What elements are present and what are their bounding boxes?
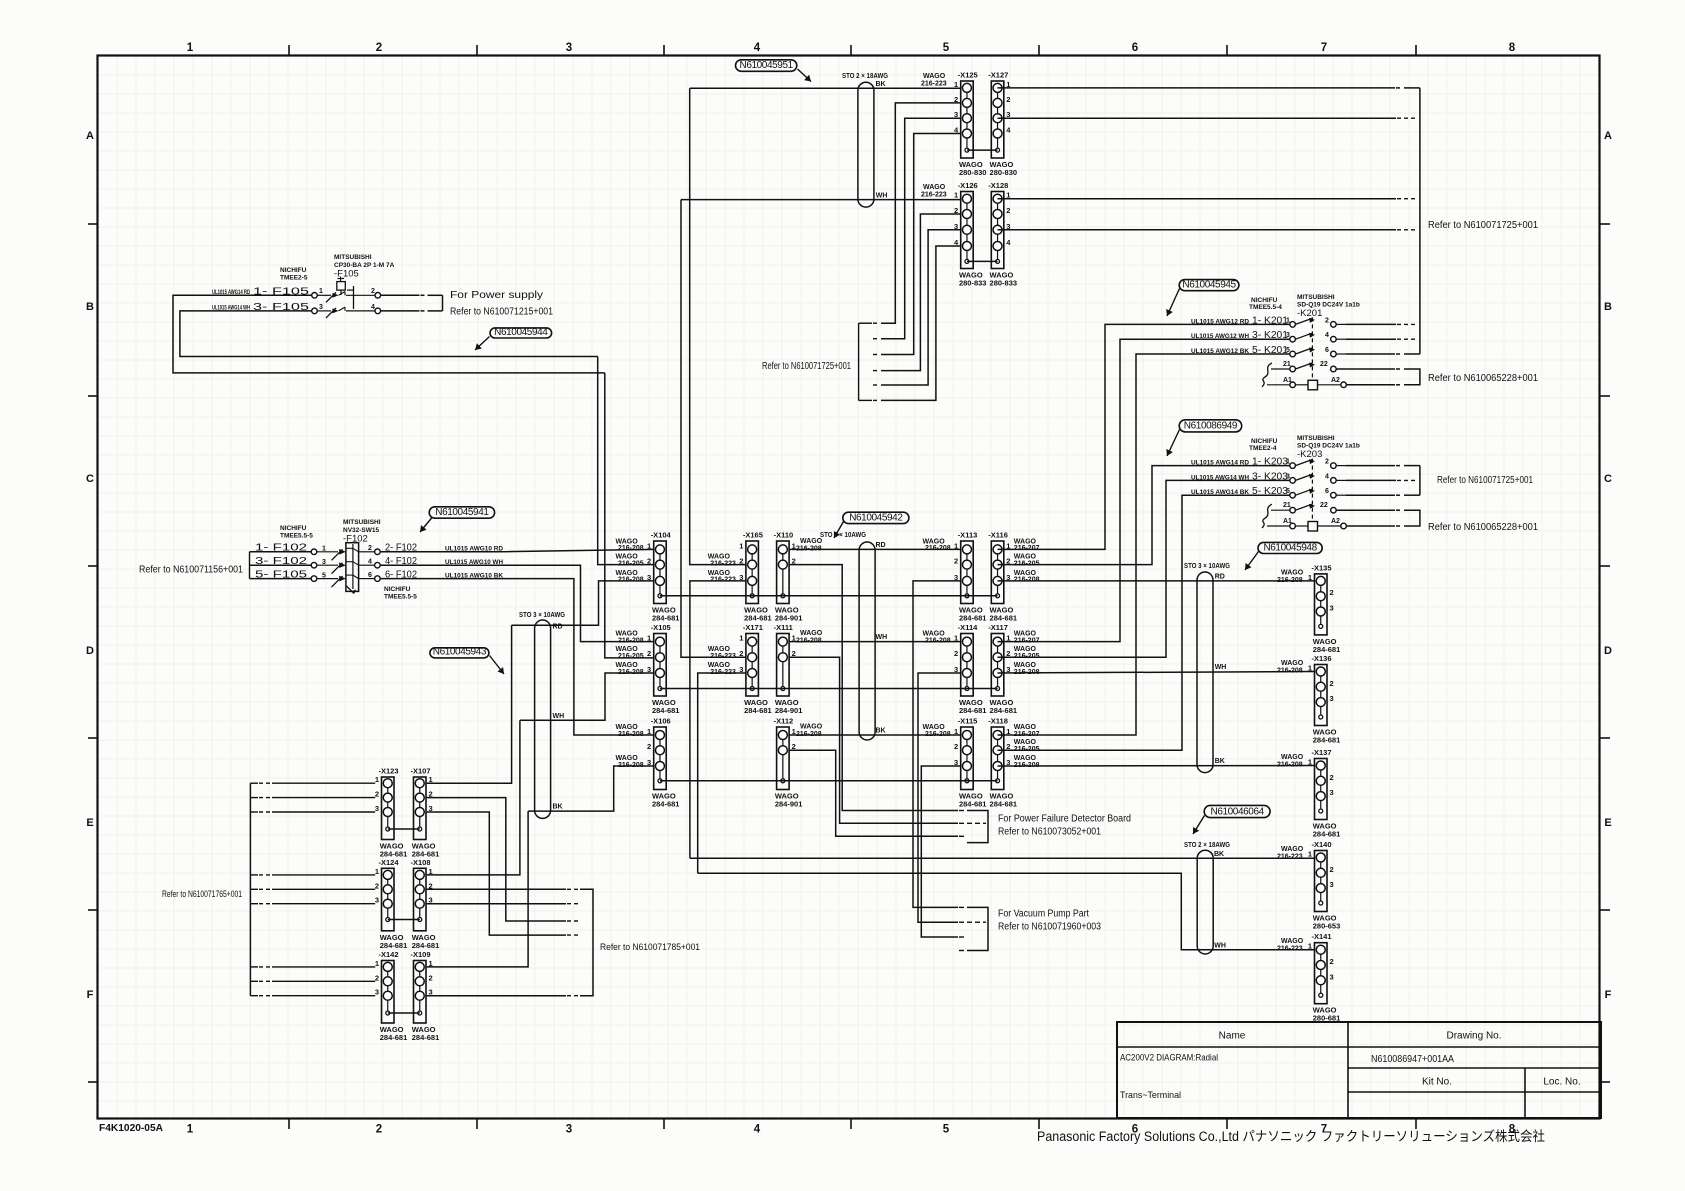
svg-text:1: 1 <box>187 1124 194 1136</box>
wire bracket to X142 pin <box>250 995 258 997</box>
svg-text:RD: RD <box>1215 574 1225 581</box>
svg-text:A1: A1 <box>1283 377 1292 384</box>
svg-text:1: 1 <box>429 867 433 876</box>
cable STO 3x10AWG left <box>519 612 565 818</box>
wire joining small terminals X123-X107 <box>388 828 420 830</box>
wire F102-6 BK to X106 pin1 <box>380 579 654 735</box>
wire F105-3 loop left <box>180 311 598 357</box>
wire X128 pin1 to right bracket <box>998 198 1397 200</box>
svg-text:284-681: 284-681 <box>990 706 1018 715</box>
wire X127 pin1 to right bracket <box>998 87 1396 89</box>
svg-text:284-681: 284-681 <box>744 706 772 715</box>
svg-text:BK: BK <box>876 728 886 735</box>
wire X126 pin2 to left bracket <box>881 214 961 371</box>
callout N610045945 <box>1166 280 1239 317</box>
breaker F102 labels <box>280 519 417 601</box>
svg-text:-X105: -X105 <box>651 623 671 632</box>
svg-text:RD: RD <box>876 542 886 549</box>
svg-text:284-681: 284-681 <box>412 1033 440 1042</box>
svg-text:2: 2 <box>647 557 651 566</box>
svg-text:STO 2 × 18AWG: STO 2 × 18AWG <box>1184 842 1230 849</box>
svg-text:1: 1 <box>1308 850 1312 859</box>
svg-text:E: E <box>86 817 93 829</box>
svg-text:5: 5 <box>943 1124 950 1136</box>
wire label UL1015 AWG14 WH 3- K203 <box>1191 471 1329 482</box>
wire X112 pin2 down to Power Failure bracket <box>789 750 958 836</box>
svg-text:STO 3 × 10AWG: STO 3 × 10AWG <box>519 612 565 619</box>
svg-text:2: 2 <box>376 42 382 54</box>
svg-text:-X171: -X171 <box>743 623 763 632</box>
wire vertical X171 pin3 feed <box>698 673 746 873</box>
svg-text:8: 8 <box>1509 42 1516 54</box>
svg-text:B: B <box>86 301 94 313</box>
svg-text:3: 3 <box>375 896 379 905</box>
svg-text:284-681: 284-681 <box>959 800 987 809</box>
svg-text:N610045951: N610045951 <box>740 60 794 71</box>
wire X110 pin2 down to Power Failure bracket <box>789 565 958 811</box>
svg-text:216-223: 216-223 <box>921 81 947 88</box>
svg-text:1: 1 <box>429 775 433 784</box>
connector X126 <box>954 181 986 288</box>
svg-text:284-681: 284-681 <box>1313 830 1341 839</box>
svg-text:TMEE5.5-4: TMEE5.5-4 <box>1249 304 1282 311</box>
wire F105 WH vertical to X104 pin2 <box>598 357 654 565</box>
cable STO 3x10AWG right <box>1184 563 1230 773</box>
svg-text:RD: RD <box>553 624 563 631</box>
wire K203-22 to bracket <box>1336 510 1403 526</box>
svg-text:2: 2 <box>647 649 651 658</box>
svg-text:1: 1 <box>954 191 958 200</box>
connector X127 <box>988 71 1017 178</box>
svg-text:216-205: 216-205 <box>618 653 644 660</box>
svg-text:-X123: -X123 <box>379 767 399 776</box>
wire X116 pin3 to X135 pin1 RD <box>998 574 1316 581</box>
svg-text:Refer to N610071156+001: Refer to N610071156+001 <box>139 565 243 576</box>
svg-text:WH: WH <box>1214 942 1226 949</box>
svg-text:-X111: -X111 <box>774 623 793 632</box>
svg-text:NICHIFU: NICHIFU <box>1251 297 1278 304</box>
svg-text:3: 3 <box>1330 788 1334 797</box>
svg-text:WAGO: WAGO <box>1281 660 1304 667</box>
bracket Refer to N610071156+001 <box>250 552 312 579</box>
svg-text:NICHIFU: NICHIFU <box>280 525 307 532</box>
svg-text:WAGO: WAGO <box>1281 754 1304 761</box>
frame row ticks left <box>88 224 98 1082</box>
svg-text:1: 1 <box>1308 664 1312 673</box>
connector X105 <box>616 623 680 715</box>
callout N610046064 <box>1193 805 1270 834</box>
wire joining small terminals row C <box>660 780 998 782</box>
callout N610045943 <box>430 647 504 674</box>
cable STO 2x18AWG top <box>842 73 888 207</box>
svg-text:For Power supply: For Power supply <box>450 290 543 301</box>
relay K201 labels <box>1249 294 1360 319</box>
svg-text:-F105: -F105 <box>334 269 359 280</box>
column numbers top <box>187 42 1516 54</box>
svg-text:NICHIFU: NICHIFU <box>1251 438 1278 445</box>
connector X118 <box>988 717 1039 809</box>
wire K201-22 to bracket <box>1336 369 1403 385</box>
wire X114 pin3 down to Vacuum bracket <box>918 673 961 922</box>
continuation bracket Refer to N610071785+001 <box>567 889 593 995</box>
drawing frame border <box>98 56 1600 1119</box>
svg-text:-X128: -X128 <box>988 181 1008 190</box>
svg-text:MITSUBISHI: MITSUBISHI <box>1297 294 1335 301</box>
svg-text:284-681: 284-681 <box>959 706 987 715</box>
continuation bracket Refer to N610065228+001 K201 <box>1404 369 1420 385</box>
svg-text:-X126: -X126 <box>958 181 978 190</box>
wire K201-6 to right bracket <box>1346 353 1395 355</box>
svg-text:1: 1 <box>739 541 743 550</box>
svg-text:-K203: -K203 <box>1297 449 1322 460</box>
svg-text:3: 3 <box>647 573 651 582</box>
label WAGO 216-208 left of X137 <box>1277 754 1304 769</box>
svg-text:1: 1 <box>375 775 379 784</box>
callout N610045941 <box>420 507 495 532</box>
wire X115 pin3 down to Vacuum bracket <box>921 766 960 937</box>
wire X125 pin4 to left bracket <box>881 134 961 355</box>
svg-text:216-208: 216-208 <box>1277 668 1303 675</box>
wire joining small terminals X124-X108 <box>388 919 420 921</box>
svg-text:WAGO: WAGO <box>800 630 823 637</box>
svg-text:280-653: 280-653 <box>1313 922 1341 931</box>
connector X125 <box>954 71 986 178</box>
svg-text:5: 5 <box>943 42 950 54</box>
svg-text:2: 2 <box>429 973 433 982</box>
svg-text:4: 4 <box>1325 332 1329 339</box>
svg-text:2: 2 <box>1006 95 1010 104</box>
wire bracket to X124 pin <box>250 888 258 890</box>
wire X111 pin1 to X114 pin1 WH <box>789 634 961 642</box>
svg-text:-X109: -X109 <box>411 950 431 959</box>
svg-text:TMEE5.5-5: TMEE5.5-5 <box>384 594 417 601</box>
svg-text:284-901: 284-901 <box>775 614 803 623</box>
frame row ticks right <box>1600 224 1610 1082</box>
wire label UL1015 AWG12 BK 5- K201 <box>1191 345 1329 356</box>
connector X140 <box>1308 840 1340 931</box>
callout N610045951 <box>736 60 812 82</box>
svg-text:6: 6 <box>1132 42 1138 54</box>
svg-text:2: 2 <box>376 1124 382 1136</box>
svg-text:-X106: -X106 <box>651 717 671 726</box>
connector X110 <box>774 531 803 623</box>
wire BK vertical to X165 pin2 <box>690 88 746 564</box>
svg-text:Drawing No.: Drawing No. <box>1446 1031 1501 1042</box>
frame column ticks bottom <box>289 1118 1416 1129</box>
svg-text:284-681: 284-681 <box>380 941 408 950</box>
continuation bracket Refer to N610071725+001 middle <box>859 323 880 400</box>
svg-text:21: 21 <box>1283 502 1291 509</box>
wire label UL1015 AWG14 RD 1- K203 <box>1191 457 1329 468</box>
wire F102-4 WH to X105 pin1 <box>380 565 654 641</box>
connector X142 <box>375 950 407 1042</box>
svg-text:21: 21 <box>1283 361 1291 368</box>
svg-text:216-208: 216-208 <box>618 545 644 552</box>
svg-text:4: 4 <box>368 559 372 566</box>
svg-text:2: 2 <box>954 742 958 751</box>
wire label UL1015 AWG12 WH 3- K201 <box>1191 330 1329 341</box>
wire K201-1 to X116 pin1 <box>998 324 1290 549</box>
svg-text:-X137: -X137 <box>1312 748 1332 757</box>
connector X124 <box>375 858 407 950</box>
svg-text:Refer to N610073052+001: Refer to N610073052+001 <box>998 827 1101 838</box>
svg-text:3: 3 <box>319 304 323 311</box>
svg-text:3: 3 <box>647 758 651 767</box>
svg-text:D: D <box>86 645 94 657</box>
label WAGO 216-208 right of X111 <box>796 630 823 645</box>
svg-text:BK: BK <box>1215 758 1225 765</box>
svg-text:STO 3 × 10AWG: STO 3 × 10AWG <box>1184 563 1230 570</box>
svg-text:STO 2 × 18AWG: STO 2 × 18AWG <box>842 73 888 80</box>
svg-text:For Power Failure Detector Boa: For Power Failure Detector Board <box>998 814 1131 825</box>
wire WH long to X141 pin1 <box>698 873 1315 949</box>
relay K203 contacts <box>1262 459 1346 531</box>
connector X111 <box>774 623 803 715</box>
wire WH through left cable to X105 pin3 <box>520 673 654 720</box>
svg-text:3: 3 <box>566 42 572 54</box>
svg-text:N610045942: N610045942 <box>849 512 903 523</box>
svg-text:216-208: 216-208 <box>618 669 644 676</box>
wire bracket to X142 pin <box>250 966 258 968</box>
connector X104 <box>616 531 680 623</box>
svg-text:A2: A2 <box>1331 377 1340 384</box>
continuation bracket For Power supply <box>421 295 443 311</box>
wire F105 RD vertical to X105 pin2 <box>605 373 654 658</box>
svg-text:Refer to N610071725+001: Refer to N610071725+001 <box>762 361 851 372</box>
wire F105 terminal 4 stub <box>381 310 420 312</box>
svg-text:C: C <box>86 473 94 485</box>
svg-text:1: 1 <box>739 634 743 643</box>
svg-text:3: 3 <box>375 988 379 997</box>
svg-text:Refer to N610071725+001: Refer to N610071725+001 <box>1428 220 1538 231</box>
svg-text:284-681: 284-681 <box>652 706 680 715</box>
frame column ticks top <box>289 45 1416 56</box>
label WAGO 216-208 left of X136 <box>1277 660 1304 675</box>
connector X123 <box>375 767 407 859</box>
wire label UL1015 AWG14 RD 1- F105 <box>212 286 323 297</box>
connector X137 <box>1308 748 1340 839</box>
callout N610045948 <box>1245 542 1322 570</box>
wire bracket to X123 pin <box>250 797 258 799</box>
wire RD cable to X107 pin1 <box>427 625 512 783</box>
svg-text:216-223: 216-223 <box>1277 854 1303 861</box>
wire K203-1 to X116 pin2 <box>998 466 1290 565</box>
svg-text:3: 3 <box>1330 694 1334 703</box>
svg-text:284-681: 284-681 <box>380 1033 408 1042</box>
column numbers bottom <box>187 1124 1516 1136</box>
svg-text:Refer to N610065228+001: Refer to N610065228+001 <box>1428 373 1538 384</box>
svg-text:-X124: -X124 <box>379 858 400 867</box>
wire X125 pin3 to left bracket <box>881 118 961 339</box>
svg-text:284-681: 284-681 <box>990 614 1018 623</box>
svg-text:280-681: 280-681 <box>1313 1014 1341 1023</box>
svg-text:1: 1 <box>429 959 433 968</box>
svg-text:2: 2 <box>1330 588 1334 597</box>
svg-text:216-208: 216-208 <box>618 637 644 644</box>
svg-text:-X115: -X115 <box>958 717 978 726</box>
svg-text:F: F <box>1605 989 1612 1001</box>
svg-text:BK: BK <box>1214 851 1224 858</box>
svg-text:N610086949: N610086949 <box>1184 421 1238 432</box>
svg-text:1: 1 <box>375 959 379 968</box>
connector X113 <box>923 531 987 623</box>
svg-text:WH: WH <box>553 713 565 720</box>
svg-text:284-901: 284-901 <box>775 800 803 809</box>
svg-text:Loc. No.: Loc. No. <box>1543 1077 1580 1088</box>
svg-text:2: 2 <box>1330 865 1334 874</box>
wire BK long to X140 pin1 <box>690 851 1315 858</box>
svg-text:N610086947+001AA: N610086947+001AA <box>1371 1053 1454 1065</box>
wire joining small terminals X125-X127 <box>967 149 998 151</box>
wire WH vertical to X171 pin2 <box>681 200 746 658</box>
relay K201 contacts <box>1262 317 1346 389</box>
wire K203-5 to X118 pin2 <box>998 495 1290 750</box>
svg-text:1: 1 <box>375 867 379 876</box>
label WAGO 216-208 right of X110 <box>796 538 823 553</box>
svg-text:1: 1 <box>319 288 323 295</box>
svg-text:-X118: -X118 <box>988 717 1008 726</box>
continuation bracket right K203 <box>1419 466 1421 496</box>
svg-text:E: E <box>1604 817 1611 829</box>
svg-text:4: 4 <box>371 304 375 311</box>
svg-text:Refer to N610065228+001: Refer to N610065228+001 <box>1428 522 1538 533</box>
wire label UL1015 AWG14 WH 3- F105 <box>212 302 323 313</box>
svg-text:280-833: 280-833 <box>959 279 987 288</box>
svg-text:216-205: 216-205 <box>618 560 644 567</box>
wire X107 pin2 to bracket N610071785 <box>427 798 566 921</box>
svg-text:BK: BK <box>876 81 886 88</box>
wire vertical X165 pin3 feed <box>690 581 746 858</box>
svg-text:284-681: 284-681 <box>1313 736 1341 745</box>
wire K201-2 to right bracket <box>1346 323 1396 325</box>
svg-text:-X165: -X165 <box>743 531 763 540</box>
connector X171 <box>708 623 772 715</box>
svg-text:280-833: 280-833 <box>990 279 1018 288</box>
breaker F102 <box>311 543 380 594</box>
svg-text:Trans~Terminal: Trans~Terminal <box>1120 1090 1181 1101</box>
wire label UL1015 AWG12 RD 1- K201 <box>1191 315 1329 326</box>
wire X108 pin2 to bracket N610071785 <box>427 888 566 890</box>
svg-text:22: 22 <box>1320 361 1328 368</box>
svg-text:2: 2 <box>1330 773 1334 782</box>
svg-text:NICHIFU: NICHIFU <box>280 267 307 274</box>
svg-text:NICHIFU: NICHIFU <box>384 586 411 593</box>
svg-text:3: 3 <box>566 1124 572 1136</box>
svg-text:2: 2 <box>1325 317 1329 324</box>
svg-text:1: 1 <box>1308 573 1312 582</box>
relay K203 labels <box>1249 435 1360 460</box>
connector X116 <box>988 531 1039 623</box>
svg-text:1: 1 <box>647 634 651 643</box>
svg-text:-X140: -X140 <box>1312 840 1332 849</box>
svg-text:-K201: -K201 <box>1297 308 1322 319</box>
wire WH top cable to X126 pin1 <box>681 192 961 199</box>
svg-text:WAGO: WAGO <box>1281 569 1304 576</box>
svg-text:284-681: 284-681 <box>652 800 680 809</box>
svg-text:280-830: 280-830 <box>990 168 1018 177</box>
svg-text:-X136: -X136 <box>1312 654 1332 663</box>
svg-text:Refer to N610071960+003: Refer to N610071960+003 <box>998 922 1101 933</box>
svg-text:A: A <box>86 130 94 142</box>
svg-text:1: 1 <box>187 42 194 54</box>
wire joining small terminals row A <box>660 595 998 597</box>
wire X112 pin1 to X115 pin1 BK <box>789 728 961 736</box>
svg-text:Refer to N610071785+001: Refer to N610071785+001 <box>600 942 700 953</box>
svg-text:STO 3 × 10AWG: STO 3 × 10AWG <box>820 532 866 539</box>
wire X108 pin3 to bracket N610071785 <box>427 903 566 905</box>
svg-text:MITSUBISHI: MITSUBISHI <box>1297 435 1335 442</box>
wire K203-2 to right bracket <box>1346 465 1395 467</box>
svg-text:3: 3 <box>1330 972 1334 981</box>
svg-text:2: 2 <box>1330 679 1334 688</box>
connector X117 <box>988 623 1039 715</box>
svg-text:280-830: 280-830 <box>959 168 987 177</box>
wire F102-2 RD to X104 pin1 <box>380 549 654 551</box>
connector X109 <box>411 950 440 1042</box>
svg-text:284-681: 284-681 <box>412 941 440 950</box>
svg-text:Refer to N610071215+001: Refer to N610071215+001 <box>450 307 553 318</box>
svg-text:216-208: 216-208 <box>1277 762 1303 769</box>
svg-text:-X125: -X125 <box>958 71 978 80</box>
wire X128 pin3 to right bracket <box>998 229 1397 231</box>
connector X106 <box>616 717 680 809</box>
wire labels F102 left <box>255 543 326 581</box>
svg-text:6: 6 <box>368 572 372 579</box>
svg-text:1: 1 <box>1308 758 1312 767</box>
wire X127 pin3 to right bracket <box>998 117 1397 119</box>
svg-text:D: D <box>1604 645 1612 657</box>
continuation bracket Refer to N610065228+001 K203 <box>1404 510 1420 526</box>
breaker F105 labels <box>280 254 395 282</box>
tall continuation bracket right Refer to N610071725+001 <box>1419 88 1421 354</box>
svg-text:N610045943: N610045943 <box>433 647 487 658</box>
svg-text:3: 3 <box>1330 604 1334 613</box>
wire label UL1015 AWG14 BK 5- K203 <box>1191 486 1329 497</box>
wire X126 pin4 to left bracket <box>881 246 961 400</box>
wire X118 pin3 to X137 pin1 BK <box>998 758 1316 766</box>
svg-text:1: 1 <box>647 541 651 550</box>
svg-text:Name: Name <box>1219 1031 1246 1042</box>
continuation bracket Power Failure Detector <box>959 811 988 843</box>
svg-text:WAGO: WAGO <box>800 538 823 545</box>
wire BK cable to X109 pin1 <box>427 811 528 967</box>
svg-text:-X107: -X107 <box>411 767 431 776</box>
svg-text:MITSUBISHI: MITSUBISHI <box>334 254 372 261</box>
svg-text:-X104: -X104 <box>651 531 672 540</box>
svg-text:F4K1020-05A: F4K1020-05A <box>99 1123 163 1134</box>
svg-text:216-208: 216-208 <box>618 762 644 769</box>
svg-text:3: 3 <box>1330 880 1334 889</box>
svg-text:Refer to N610071725+001: Refer to N610071725+001 <box>1437 475 1533 486</box>
svg-text:N610045945: N610045945 <box>1182 280 1236 291</box>
svg-text:WAGO: WAGO <box>923 184 946 191</box>
svg-text:-X117: -X117 <box>988 623 1008 632</box>
svg-text:1: 1 <box>954 80 958 89</box>
svg-text:A2: A2 <box>1331 518 1340 525</box>
wire K203-6 to right bracket <box>1346 494 1395 496</box>
wire F105-1 loop left <box>173 295 605 373</box>
svg-text:3: 3 <box>647 665 651 674</box>
wire X109 pin3 to bracket N610071785 <box>427 995 566 997</box>
wire joining small terminals row B <box>660 688 998 690</box>
connector X112 <box>774 717 803 809</box>
wire joining small terminals X142-X109 <box>388 1012 420 1014</box>
svg-text:2: 2 <box>375 973 379 982</box>
label WAGO 216-208 left of X135 <box>1277 569 1304 584</box>
connector X135 <box>1308 563 1340 654</box>
svg-text:2: 2 <box>647 742 651 751</box>
wire K201-4 to right bracket <box>1346 338 1396 340</box>
